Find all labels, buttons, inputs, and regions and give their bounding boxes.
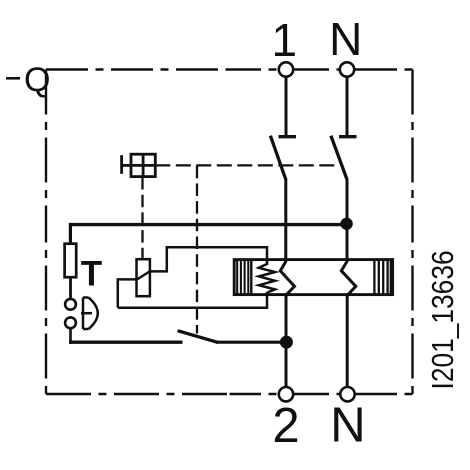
wire: pole 1 lower vertical — [285, 295, 288, 388]
chevron pole N through CT core — [341, 262, 356, 295]
contact fixed bar pole 1 — [279, 135, 297, 138]
terminal circle N top — [340, 62, 354, 76]
svg-text:T: T — [81, 255, 102, 294]
svg-text:N: N — [330, 399, 365, 453]
wire: relay right lead staircase — [150, 247, 267, 271]
CT right winding hatch — [374, 260, 391, 295]
wire: pole N mid vertical — [346, 179, 349, 263]
wire: pole 1 top stub — [285, 77, 288, 136]
svg-text:Q: Q — [24, 61, 50, 99]
wire: test contact to pole 1 — [216, 341, 283, 344]
wire: push-button down to test wire — [69, 328, 72, 344]
switch blade pole N — [331, 136, 347, 180]
wire: resistor to push-button — [69, 277, 72, 300]
contact fixed bar pole N — [339, 135, 357, 138]
test push-button contact circles — [65, 299, 76, 310]
mechanism square with cross — [122, 154, 156, 176]
mechanical linkage dashed horizontal — [155, 164, 336, 166]
svg-text:2: 2 — [272, 399, 299, 453]
label -Q — [6, 61, 50, 99]
junction dot on pole 1 — [280, 336, 293, 349]
terminal circle N bottom — [340, 387, 354, 401]
wire: upper horizontal bus to N junction — [69, 223, 347, 226]
wire: pole N top stub — [346, 77, 349, 136]
trip relay body — [137, 259, 150, 296]
CT left winding hatch — [237, 260, 251, 295]
chevron pole 1 through CT core — [280, 262, 294, 295]
terminal circle 1 — [279, 62, 293, 76]
mechanical linkage dashed vertical to test contact — [196, 166, 198, 334]
test contact blade — [178, 331, 218, 343]
junction dot on N line — [340, 218, 352, 230]
stub into trip relay — [141, 248, 143, 260]
device outline box (dash-dot phantom border) — [46, 70, 413, 395]
resistor (test resistor) — [65, 244, 77, 278]
wire: corner down to resistor — [69, 223, 72, 245]
wire: relay left lead — [118, 279, 137, 307]
wire: pole 1 mid vertical — [284, 179, 287, 263]
terminal circle 2 — [279, 387, 293, 401]
svg-text:N: N — [329, 13, 362, 65]
mechanical linkage dashed vertical to trip relay — [141, 177, 143, 249]
wire: secondary bottom — [118, 292, 267, 308]
CT core bar — [234, 260, 392, 295]
CT secondary winding zigzag — [259, 264, 275, 293]
wire: test circuit horizontal — [69, 341, 183, 344]
trip relay diagonal — [137, 271, 150, 279]
svg-text:I201_13636: I201_13636 — [426, 250, 460, 389]
push-button actuator — [81, 298, 98, 330]
switch blade pole 1 — [270, 136, 285, 180]
wire: pole N lower vertical — [346, 295, 349, 388]
svg-text:1: 1 — [272, 14, 298, 66]
